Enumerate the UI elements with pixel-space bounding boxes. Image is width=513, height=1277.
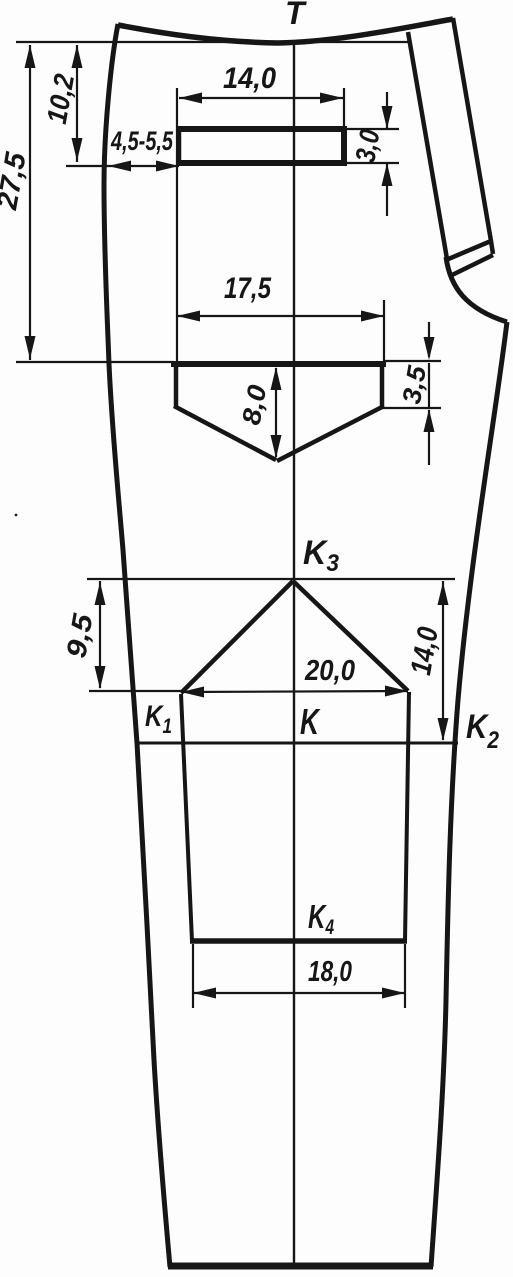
svg-text:K: K [300,701,321,742]
svg-text:14,0: 14,0 [223,62,276,95]
svg-text:3,0: 3,0 [349,127,385,165]
svg-text:17,5: 17,5 [224,272,272,305]
svg-text:18,0: 18,0 [308,956,352,988]
svg-text:20,0: 20,0 [304,655,355,687]
svg-text:T: T [285,0,307,31]
svg-text:4,5-5,5: 4,5-5,5 [110,126,173,156]
